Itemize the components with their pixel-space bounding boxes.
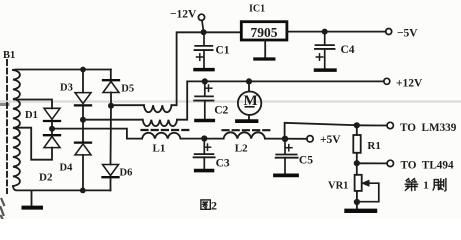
capacitor C4 [315,32,335,71]
label C1 [216,45,230,57]
wire: L2 to +5V node [265,138,307,140]
ground (VR1) [347,209,376,213]
label D4 [60,163,74,174]
node: C3 top [201,135,207,141]
diode D1 [44,108,60,129]
terminal +5V [307,136,313,142]
svg-text:L1: L1 [153,143,166,155]
node: TL494 junction [354,160,360,166]
svg-text:−12V: −12V [170,9,197,21]
inductor L2 core [223,129,270,131]
choke L1 winding W1 [144,105,172,112]
svg-text:+5V: +5V [320,134,341,146]
terminal TO LM339 [387,122,393,128]
transformer B1 core [6,60,8,193]
diode D6 [103,106,119,191]
wire: 7905 output to -5V [287,31,386,33]
label VR1 [328,180,348,191]
label L1 [153,143,166,155]
wire: R1 to VR1 [356,153,358,175]
svg-text:B1: B1 [3,50,15,61]
label pin 1 (Chinese) [405,179,446,192]
scan fold line [0,102,461,105]
label C5 [299,154,313,166]
node: +5V [282,136,288,142]
wire: W1 up to -12V bus [172,32,242,105]
diode D2 [44,129,60,148]
label +5V [320,134,341,146]
regulator U1 7905 [241,22,287,40]
svg-text:−5V: −5V [397,27,418,39]
node: VR1 wiper tie [354,199,360,205]
choke L1 winding W3 [142,133,180,139]
label D3 [60,83,73,94]
diode D3 [75,70,91,120]
label L2 [235,143,248,155]
svg-text:L2: L2 [235,143,248,155]
svg-text:TO TL494: TO TL494 [401,159,454,171]
label D6 [120,168,133,179]
node: R1 top [354,122,360,128]
diode D5 [103,70,119,106]
svg-text:C3: C3 [216,158,230,170]
label -12V [170,9,197,21]
inductor L2 [224,132,265,138]
wire: W2 up to +12V bus [177,81,384,119]
svg-text:R1: R1 [367,140,380,152]
terminal -5V [386,29,392,35]
motor M1 [238,81,261,118]
ground (C3) [196,169,213,173]
wire: 7905 ground pin [264,40,266,57]
label -5V [397,27,418,39]
svg-text:C2: C2 [214,105,228,117]
svg-text:D5: D5 [121,84,134,95]
label C2 [214,105,228,117]
wire: +5V sense to R1 [285,123,357,139]
ground (7905) [255,57,274,60]
label D2 [39,172,53,184]
svg-text:2: 2 [211,198,217,212]
capacitor C5 [276,139,298,173]
node: +12V bus / C1-C2 [202,78,208,84]
label C4 [341,44,355,56]
node: +12V bus / motor [246,78,252,84]
wire: +5V raw from D1/D2 node to choke W3 [52,129,142,139]
choke L1 winding W2 [143,120,177,126]
wire: to TL494 terminal [357,162,387,164]
label TO LM339 [400,122,457,134]
wire: VR1 to ground [356,191,358,209]
terminal -12V [198,14,204,32]
svg-text:IC1: IC1 [249,4,265,15]
wire: tap3 to D2 anode [14,128,52,160]
label D1 [25,110,38,121]
svg-text:C1: C1 [216,45,230,57]
node: D5/D6 anodes (-12V raw) [108,103,114,109]
wire: D3/D4 node to choke W2 [83,119,143,121]
op-amp IC1 label [249,4,265,15]
ground (C5) [275,173,297,177]
label B1 [3,50,15,61]
svg-text:D6: D6 [120,168,133,179]
label D5 [121,84,134,95]
node: D3/D4 cathodes (+12V raw) [80,117,86,123]
node: top tap / D3 junction [80,67,86,73]
svg-text:C5: C5 [299,154,313,166]
capacitor C2 [194,81,213,120]
wire: secondary top tap to D3/D5 [13,69,111,72]
wire: tap2 to D1 [14,100,52,109]
svg-text:D2: D2 [39,172,53,184]
svg-text:+12V: +12V [396,77,423,89]
svg-text:TO LM339: TO LM339 [400,122,457,134]
ground (motor) [237,119,257,123]
wire: to LM339 terminal [357,124,387,126]
node: D1/D2 cathodes (+5V raw) [49,126,55,132]
label +12V [396,77,423,89]
label TO TL494 [401,159,454,171]
label C3 [216,158,230,170]
svg-text:1: 1 [423,180,429,192]
svg-text:D1: D1 [25,110,38,121]
transformer B1 winding [13,70,20,186]
diode D4 [75,120,91,191]
svg-text:D4: D4 [60,163,74,174]
label R1 [367,140,380,152]
wire: secondary bottom to D4/D6 [13,186,111,190]
svg-text:C4: C4 [341,44,355,56]
terminal +12V [384,78,390,84]
resistor R1 [353,135,360,153]
potentiometer VR1 [355,175,379,202]
capacitor C1 [195,32,214,69]
node: -12V bus / C1 [201,29,207,35]
svg-text:7905: 7905 [251,25,278,40]
svg-text:VR1: VR1 [328,180,348,191]
node: bottom wire / D4 junction [80,188,86,194]
node: C4 top [322,29,328,35]
choke L1 core [142,129,191,131]
scan corner smudge [1,199,5,219]
wire: W3 to L2 [181,138,224,140]
wire: -12V raw to choke W1 [111,104,144,106]
capacitor C3 [194,139,215,169]
terminal TO TL494 [387,160,393,166]
ground (transformer center) [24,190,42,207]
caption 图2 [201,198,217,212]
svg-text:D3: D3 [60,83,73,94]
